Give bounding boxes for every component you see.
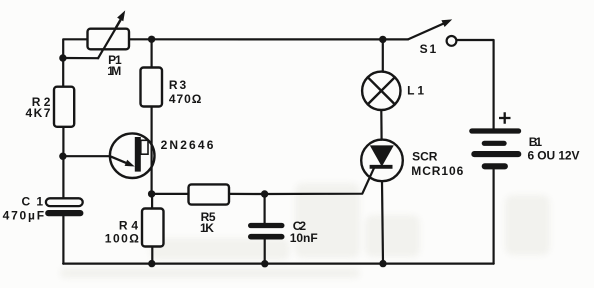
svg-text:100Ω: 100Ω <box>105 232 139 246</box>
svg-text:SCR: SCR <box>412 150 438 164</box>
svg-text:4K7: 4K7 <box>26 106 51 120</box>
svg-text:470µF: 470µF <box>3 209 45 223</box>
svg-text:6 OU 12V: 6 OU 12V <box>528 148 580 162</box>
svg-text:MCR106: MCR106 <box>411 164 463 178</box>
svg-text:B1: B1 <box>529 135 543 149</box>
svg-text:10nF: 10nF <box>290 231 318 245</box>
svg-text:1M: 1M <box>107 64 121 78</box>
svg-text:470Ω: 470Ω <box>169 92 202 106</box>
svg-text:1K: 1K <box>200 221 214 235</box>
